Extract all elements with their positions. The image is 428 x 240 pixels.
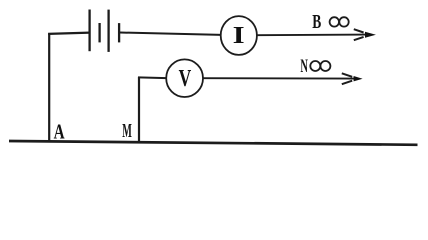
svg-text:B: B bbox=[312, 11, 321, 33]
wire ammeter to arrow B bbox=[257, 34, 368, 37]
infinity symbol (N) bbox=[310, 61, 330, 71]
svg-text:N: N bbox=[300, 56, 308, 77]
voltmeter circle bbox=[166, 59, 203, 97]
wire top-left horizontal to battery bbox=[48, 33, 90, 34]
arrowhead B (with barbs) bbox=[354, 29, 376, 40]
svg-text:I: I bbox=[233, 23, 245, 49]
wire voltmeter to arrow N bbox=[203, 77, 355, 79]
ammeter circle bbox=[221, 16, 257, 55]
wire M corner to voltmeter bbox=[138, 76, 167, 79]
svg-text:A: A bbox=[54, 120, 66, 144]
svg-text:M: M bbox=[122, 120, 132, 142]
svg-text:V: V bbox=[179, 66, 192, 92]
battery (two cells) bbox=[90, 10, 120, 52]
arrowhead N (with barbs) bbox=[342, 73, 363, 84]
infinity symbol (B) bbox=[330, 17, 349, 26]
bottom bus line bbox=[9, 141, 418, 145]
wire battery to ammeter bbox=[120, 33, 222, 35]
wire M vertical (node M branch) bbox=[138, 77, 140, 143]
wire left vertical (node A branch) bbox=[48, 34, 50, 143]
